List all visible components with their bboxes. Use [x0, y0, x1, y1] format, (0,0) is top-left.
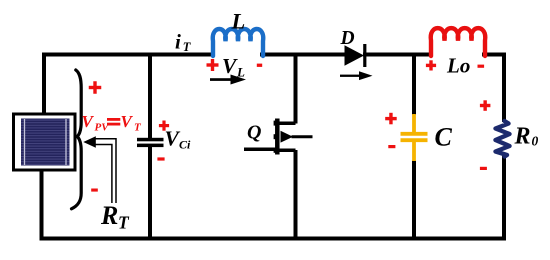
- plus sign Ci: [159, 121, 169, 131]
- svg-text:V: V: [82, 112, 95, 131]
- gate lead: [244, 148, 277, 152]
- wire top rail segment B (L to diode): [260, 53, 346, 57]
- inductor L (blue): [213, 29, 263, 56]
- inductor Lo (red): [431, 28, 486, 56]
- wire bottom rail: [42, 237, 506, 241]
- svg-text:0: 0: [532, 134, 539, 149]
- plus sign Lo: [426, 60, 436, 70]
- wire top rail segment A (left to inductor L): [42, 53, 215, 57]
- svg-text:Ci: Ci: [179, 138, 191, 152]
- body arrow line: [292, 135, 313, 138]
- diode D: [345, 44, 365, 67]
- wire right vertical above R0: [502, 53, 506, 123]
- capacitor Ci plates: [137, 138, 164, 147]
- RT pointer arrow (outlined): [83, 136, 116, 203]
- wire Ci branch upper: [148, 53, 152, 139]
- resistor R0 (blue zigzag): [496, 121, 510, 157]
- svg-text:i: i: [175, 30, 181, 54]
- wire C branch upper black: [412, 53, 416, 116]
- svg-text:R: R: [100, 201, 118, 230]
- drain vertical: [294, 53, 298, 124]
- minus sign Lo: [478, 65, 485, 68]
- label VL: [222, 54, 245, 80]
- svg-text:R: R: [514, 124, 531, 150]
- wire right vertical below R0: [502, 156, 506, 241]
- svg-text:L: L: [231, 9, 246, 34]
- svg-text:D: D: [340, 28, 355, 49]
- label VCi: [165, 127, 192, 152]
- svg-text:T: T: [183, 40, 192, 54]
- minus sign Ci: [157, 157, 164, 160]
- solar panel PV inner cells: [21, 119, 70, 166]
- plus sign C: [385, 113, 397, 125]
- solar panel PV outer frame: [14, 114, 76, 170]
- wire left vertical below PV: [40, 169, 44, 241]
- minus sign VL: [257, 64, 262, 67]
- source stub: [277, 149, 296, 153]
- wire top rail segment D (Lo to right corner): [482, 53, 506, 57]
- minus sign C: [388, 145, 395, 148]
- body arrow head: [281, 131, 294, 143]
- channel bar: [275, 119, 280, 155]
- wire C branch lower black: [412, 161, 416, 241]
- svg-text:Lo: Lo: [446, 54, 470, 78]
- svg-text:Q: Q: [247, 122, 261, 144]
- wire Ci branch lower: [148, 147, 152, 241]
- label RT: [100, 201, 130, 233]
- svg-text:T: T: [118, 213, 130, 233]
- label V_PV=V_T: [82, 112, 143, 134]
- minus sign PV: [91, 189, 98, 192]
- current arrow under D: [340, 71, 373, 80]
- label iT: [175, 30, 192, 55]
- drain stub: [277, 122, 296, 126]
- plus sign R0: [480, 100, 491, 111]
- minus sign R0: [480, 167, 487, 170]
- brace (PV characteristic curly brace): [72, 70, 82, 209]
- transistor Q (NMOS): [244, 53, 313, 241]
- label R0: [514, 124, 539, 150]
- svg-text:V: V: [222, 54, 238, 78]
- wire left vertical above PV: [42, 53, 46, 116]
- current arrow under L: [210, 75, 246, 85]
- plus sign VL: [207, 59, 219, 71]
- wire top rail segment C (diode to Lo): [363, 53, 433, 57]
- source vertical: [294, 150, 298, 241]
- svg-text:V: V: [121, 112, 134, 131]
- channel connection nubs: [274, 121, 278, 153]
- svg-text:C: C: [435, 123, 453, 152]
- plus sign PV: [89, 81, 102, 94]
- capacitor C (yellow): [401, 114, 428, 161]
